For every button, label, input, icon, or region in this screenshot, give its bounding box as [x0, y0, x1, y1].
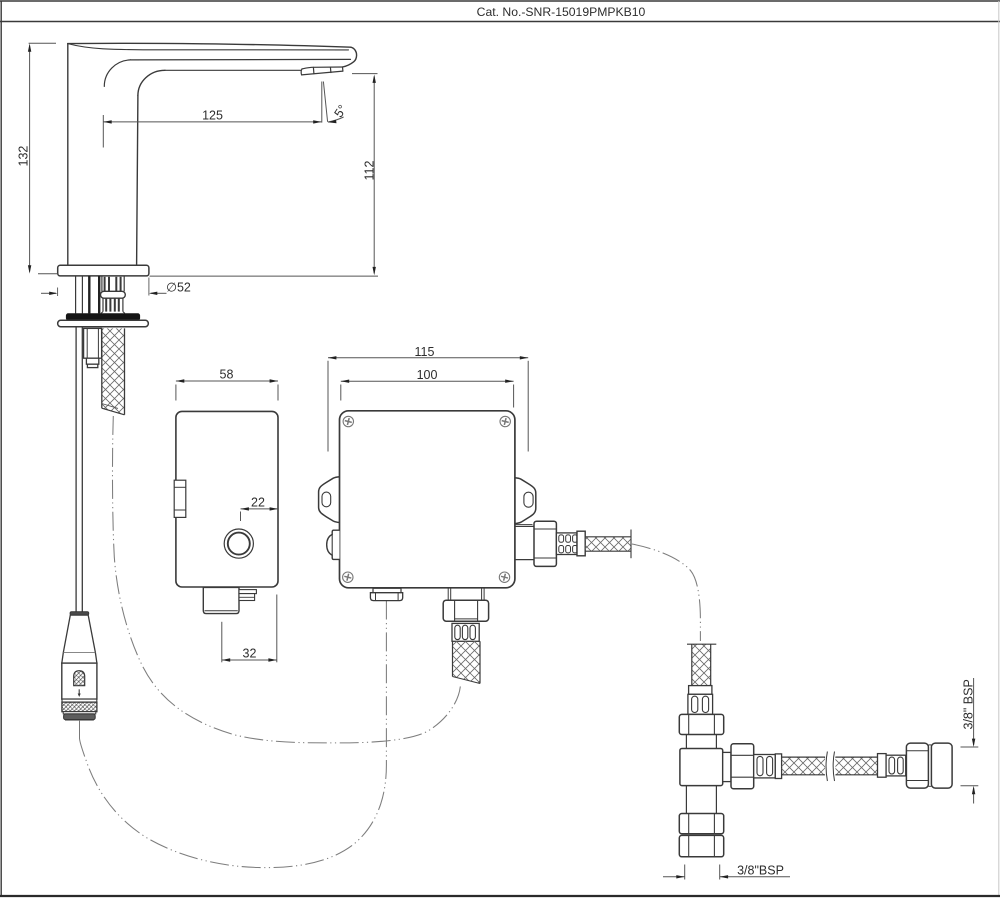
rubber washer (black)	[66, 313, 140, 320]
faucet top edge	[68, 43, 351, 47]
screw bottom-left	[343, 572, 353, 582]
tee body	[680, 749, 723, 786]
plug receptacle upper ribs	[102, 276, 124, 291]
svg-text:22: 22	[251, 495, 265, 509]
sensor button inner	[228, 533, 250, 555]
lower hex nut 1	[679, 814, 723, 834]
dim 58	[176, 379, 278, 400]
branch flange	[723, 752, 731, 781]
plug window slot	[74, 671, 85, 686]
plug lower body	[62, 663, 97, 699]
plug end cap (dark)	[64, 714, 96, 720]
inlet hose routing curve	[632, 544, 700, 641]
svg-text:∅52: ∅52	[166, 281, 191, 295]
spout underside lower fillet arc	[138, 70, 165, 95]
knurled ring	[62, 702, 97, 712]
faucet top bevel line	[68, 44, 349, 50]
riser tube	[685, 735, 687, 749]
spout underside upper fillet arc	[104, 60, 130, 87]
riser collar	[689, 686, 712, 695]
dim 3/8 BSP right	[961, 678, 979, 804]
bottom outlet crimp sleeve	[452, 623, 479, 641]
sensor cable routing curve	[80, 601, 387, 868]
screw top-left	[343, 416, 353, 426]
branch hex nut	[731, 744, 754, 789]
end hex nut	[906, 743, 928, 788]
spout underside upper line	[130, 58, 350, 61]
svg-text:115: 115	[415, 345, 435, 359]
cable upper (dark)	[88, 276, 90, 314]
riser hose (braided)	[692, 644, 711, 685]
branch hose (braided) with break	[782, 757, 826, 775]
screw bottom-right	[499, 572, 509, 582]
screw top-right	[500, 416, 510, 426]
faucet hose routing curve	[112, 416, 460, 743]
right outlet hex nut	[534, 521, 556, 566]
dim phi52	[41, 292, 56, 294]
plug receptacle band	[101, 291, 126, 298]
plug strain relief cap	[70, 612, 89, 615]
right mounting ear	[515, 478, 536, 524]
left mounting ear	[319, 477, 340, 523]
bottom cable gland	[373, 588, 401, 592]
svg-text:32: 32	[243, 646, 257, 660]
nut-cap joint lines	[928, 744, 931, 746]
dim 132	[29, 46, 31, 272]
left ear slot	[322, 492, 331, 507]
end crimp sleeve	[886, 755, 906, 776]
svg-text:58: 58	[220, 368, 234, 382]
bottom outlet hex nut	[443, 600, 488, 621]
right outlet collar	[577, 531, 585, 556]
sensor cable below flange	[75, 327, 77, 613]
dim 112	[352, 73, 378, 75]
dim 3/8 BSP bottom	[663, 865, 790, 880]
svg-text:132: 132	[16, 146, 30, 167]
faucet supply hose (braided)	[102, 328, 125, 414]
svg-text:3/8"BSP: 3/8"BSP	[737, 864, 784, 878]
faucet spout nose	[343, 47, 357, 67]
lower hex nut 2	[679, 835, 723, 856]
dim 125	[103, 121, 321, 123]
dim 115	[328, 356, 528, 451]
ring lower band	[63, 712, 96, 714]
branch crimp sleeve	[754, 755, 776, 778]
bottom hose (braided)	[453, 641, 481, 683]
threaded stud upper	[75, 276, 77, 314]
solenoid box body	[340, 411, 515, 588]
dim 32	[222, 595, 277, 663]
svg-text:3/8" BSP: 3/8" BSP	[962, 679, 976, 729]
tee lower tube	[685, 786, 687, 814]
end collar	[878, 754, 887, 778]
inlet hose from box (braided)	[585, 537, 631, 551]
escutcheon base plate	[58, 265, 149, 276]
bottom outlet tube	[448, 588, 484, 601]
knurled ring top band	[62, 699, 97, 702]
angle 5 degree lines	[321, 82, 323, 123]
aerator outlet	[301, 67, 343, 75]
plug arrow marking	[78, 689, 80, 694]
end cap cylinder	[931, 743, 952, 788]
faucet inner right edge	[137, 96, 138, 266]
control unit body	[176, 411, 278, 587]
left cable gland	[327, 530, 340, 559]
stud sleeve nut	[84, 328, 102, 367]
faucet left edge	[67, 44, 69, 266]
bottom connector block	[203, 587, 239, 613]
hose break marks	[826, 752, 827, 782]
riser crimp sleeve	[688, 694, 713, 714]
svg-text:Cat. No.-SNR-15019PMPKB10: Cat. No.-SNR-15019PMPKB10	[477, 5, 646, 19]
svg-text:100: 100	[417, 368, 438, 382]
plug receptacle lower ribs	[101, 298, 125, 313]
mounting flange plate	[58, 320, 149, 326]
plug cable stub	[79, 721, 81, 739]
sensor button outer	[224, 529, 253, 558]
branch collar	[775, 754, 781, 779]
side clip	[174, 480, 186, 517]
connector step	[239, 590, 256, 594]
svg-text:125: 125	[202, 109, 223, 123]
right ear slot	[524, 492, 533, 507]
svg-text:112: 112	[362, 161, 376, 181]
riser hex nut	[679, 714, 723, 734]
right outlet stub	[515, 523, 533, 525]
dim 22	[241, 507, 279, 521]
plug taper body	[62, 615, 97, 663]
spout underside lower line	[165, 69, 301, 71]
right outlet crimp sleeve	[556, 533, 577, 555]
dim 100	[341, 380, 514, 408]
